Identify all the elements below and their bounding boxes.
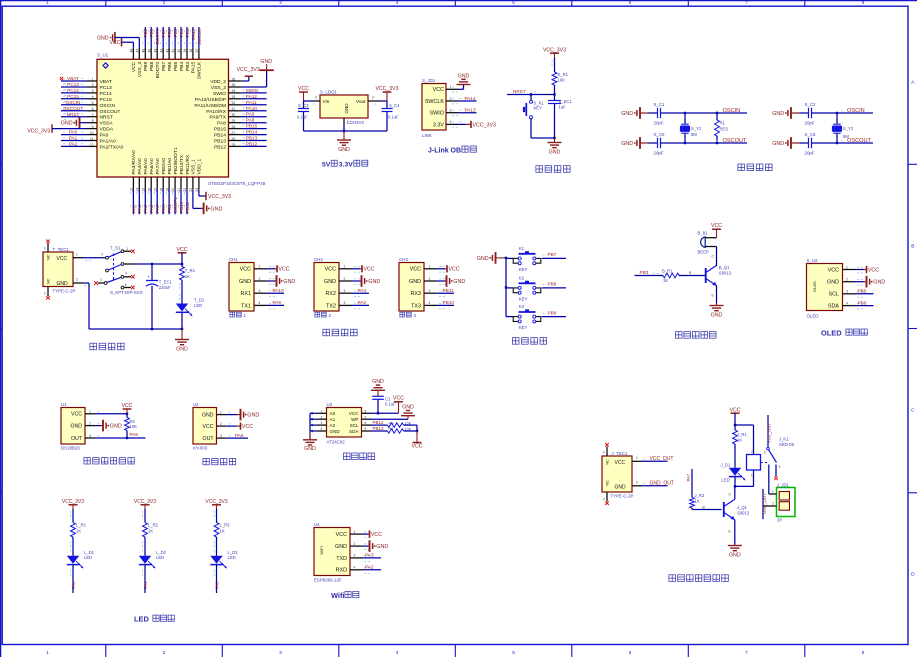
svg-text:PA4/A0: PA4/A0 bbox=[137, 158, 143, 175]
resistor L_R3 1K bbox=[214, 523, 230, 538]
svg-text:PA3: PA3 bbox=[365, 553, 374, 558]
svg-text:NC: NC bbox=[45, 254, 50, 260]
svg-text:VBAT: VBAT bbox=[67, 76, 79, 81]
svg-text:PB5: PB5 bbox=[173, 62, 179, 72]
svg-text:1K: 1K bbox=[695, 498, 700, 503]
regulator U2 LDO3V3 body bbox=[320, 95, 368, 118]
svg-text:GND: GND bbox=[458, 73, 470, 79]
svg-text:PA1/A0: PA1/A0 bbox=[100, 139, 117, 145]
net PB10 wire bbox=[437, 300, 455, 305]
resistor L_R1 1K bbox=[71, 523, 87, 538]
wire U3 WP to GND bbox=[371, 418, 408, 420]
svg-text:VCC: VCC bbox=[203, 424, 214, 430]
svg-text:S9013: S9013 bbox=[719, 270, 732, 275]
svg-text:PA8: PA8 bbox=[217, 121, 226, 127]
title storage module bbox=[343, 453, 374, 460]
svg-text:12: 12 bbox=[90, 143, 94, 147]
led L_D2 LED bbox=[139, 550, 167, 568]
key K1 KEY bbox=[506, 246, 566, 272]
svg-text:SWIO: SWIO bbox=[246, 88, 259, 93]
svg-text:PB11: PB11 bbox=[185, 201, 190, 213]
svg-text:J_JD1: J_JD1 bbox=[777, 483, 790, 488]
svg-text:26: 26 bbox=[232, 137, 236, 141]
svg-text:1K: 1K bbox=[737, 437, 742, 442]
svg-text:PC15: PC15 bbox=[100, 97, 113, 103]
svg-text:PB7: PB7 bbox=[548, 252, 557, 257]
connector JD1 designator S_JD1 bbox=[422, 78, 436, 83]
svg-text:1K: 1K bbox=[220, 528, 225, 533]
svg-text:PB12: PB12 bbox=[373, 420, 385, 425]
svg-text:J_K1: J_K1 bbox=[779, 436, 789, 441]
svg-text:SWCLK: SWCLK bbox=[197, 61, 203, 79]
mcu U1 designator S_U1 bbox=[97, 53, 109, 58]
svg-text:PA7/A0: PA7/A0 bbox=[155, 158, 161, 175]
svg-text:PB9: PB9 bbox=[143, 28, 148, 37]
svg-text:WIFI: WIFI bbox=[319, 546, 324, 554]
svg-text:3: 3 bbox=[429, 289, 431, 293]
LDO pin1 stub GND bbox=[344, 118, 349, 124]
svg-text:4: 4 bbox=[396, 0, 399, 5]
svg-text:NC: NC bbox=[604, 459, 609, 465]
title LED circuit bbox=[134, 614, 174, 623]
svg-text:30: 30 bbox=[232, 113, 236, 117]
svg-text:A2: A2 bbox=[330, 423, 336, 428]
svg-text:PA8: PA8 bbox=[246, 118, 255, 123]
svg-text:CH3: CH3 bbox=[399, 257, 408, 262]
power VCC at U3 pin8 bbox=[393, 396, 404, 414]
svg-text:32: 32 bbox=[232, 101, 236, 105]
svg-text:S_EC1: S_EC1 bbox=[559, 99, 573, 104]
svg-text:PA5/A0: PA5/A0 bbox=[143, 158, 149, 175]
svg-text:VCC_3V3: VCC_3V3 bbox=[134, 499, 156, 505]
svg-text:KEY: KEY bbox=[519, 296, 528, 301]
svg-text:PB3: PB3 bbox=[185, 28, 190, 37]
svg-text:3: 3 bbox=[315, 96, 317, 100]
resistor R1 RES bbox=[715, 112, 729, 144]
svg-text:PB4: PB4 bbox=[179, 62, 185, 72]
crystal circuit 1 wires and GND bbox=[621, 107, 747, 149]
svg-text:40: 40 bbox=[177, 49, 181, 53]
svg-text:29: 29 bbox=[232, 119, 236, 123]
svg-text:BEEP: BEEP bbox=[698, 249, 709, 254]
svg-text:2: 2 bbox=[163, 0, 166, 5]
net PB12 wire SCL bbox=[371, 420, 388, 425]
svg-text:S_Y2: S_Y2 bbox=[843, 126, 854, 131]
resistor R3 10K bbox=[388, 421, 418, 427]
svg-text:PB1: PB1 bbox=[167, 204, 172, 213]
power GND at mcu pin VSS_1 bbox=[202, 203, 223, 215]
svg-text:PB1/A0: PB1/A0 bbox=[167, 158, 173, 175]
svg-text:20pF: 20pF bbox=[805, 121, 815, 126]
power VCC_3V3 reset bbox=[543, 48, 566, 59]
power VCC_3V3 led 1 bbox=[62, 499, 84, 509]
svg-text:PB15: PB15 bbox=[214, 127, 226, 133]
svg-text:1K: 1K bbox=[76, 528, 81, 533]
display S_U2 OLED body bbox=[807, 264, 843, 311]
svg-text:GND: GND bbox=[615, 484, 627, 490]
svg-text:1: 1 bbox=[126, 247, 128, 251]
svg-text:KEY: KEY bbox=[519, 325, 528, 330]
ground GND of LDO bbox=[337, 131, 351, 153]
svg-text:1: 1 bbox=[321, 409, 323, 413]
svg-text:PB12: PB12 bbox=[214, 144, 226, 150]
svg-text:LED: LED bbox=[84, 555, 92, 560]
wire power ground rail bbox=[89, 328, 183, 330]
svg-text:4: 4 bbox=[344, 301, 346, 305]
svg-text:1: 1 bbox=[244, 313, 247, 318]
svg-text:PB5: PB5 bbox=[173, 28, 178, 37]
svg-text:SDA: SDA bbox=[349, 429, 359, 434]
resistor B_R1 1K bbox=[662, 268, 706, 282]
switch T_S1 S_KPT DIP bbox=[94, 246, 182, 295]
svg-text:PA13: PA13 bbox=[465, 108, 477, 113]
svg-text:PA7: PA7 bbox=[686, 473, 691, 481]
svg-text:PA9/TX: PA9/TX bbox=[210, 115, 227, 121]
svg-text:VCC: VCC bbox=[349, 411, 359, 416]
svg-text:DS18B20: DS18B20 bbox=[61, 445, 80, 450]
svg-text:1: 1 bbox=[429, 265, 431, 269]
svg-text:1: 1 bbox=[46, 0, 49, 5]
power GND at CH3 pin2 bbox=[437, 275, 466, 287]
svg-text:4: 4 bbox=[396, 650, 399, 655]
svg-text:5: 5 bbox=[512, 0, 515, 5]
svg-text:1: 1 bbox=[636, 456, 638, 460]
capacitor S_C1 20pF bbox=[654, 102, 666, 126]
svg-text:TYPE-C-2P: TYPE-C-2P bbox=[611, 493, 634, 498]
svg-text:S_LDO1: S_LDO1 bbox=[320, 89, 337, 94]
svg-text:PB9: PB9 bbox=[143, 62, 149, 72]
svg-text:1: 1 bbox=[846, 265, 848, 269]
svg-text:5: 5 bbox=[92, 101, 94, 105]
svg-text:6: 6 bbox=[629, 650, 632, 655]
svg-text:6: 6 bbox=[629, 0, 632, 5]
svg-text:2: 2 bbox=[372, 96, 374, 100]
crystal S_Y1 8M bbox=[680, 112, 702, 144]
svg-text:20pF: 20pF bbox=[654, 151, 664, 156]
svg-text:1: 1 bbox=[344, 265, 346, 269]
svg-text:4: 4 bbox=[259, 301, 261, 305]
mcu U1 STM32F103C8T6 body bbox=[97, 59, 229, 177]
svg-text:R4: R4 bbox=[389, 427, 394, 431]
module U4 ESP8266 body bbox=[314, 528, 350, 576]
display S_U2 pin stubs bbox=[843, 265, 864, 309]
mcu U1 value STM32F103C8T6_LQFP48 bbox=[208, 181, 266, 186]
svg-text:GND: GND bbox=[621, 111, 633, 117]
svg-text:L_R1: L_R1 bbox=[76, 523, 87, 528]
capacitor T_EC1 220uF bbox=[146, 263, 173, 329]
svg-text:OSCIN: OSCIN bbox=[66, 100, 81, 105]
power VCC_3V3 led 2 bbox=[134, 499, 156, 509]
svg-text:9: 9 bbox=[92, 125, 94, 129]
svg-text:11: 11 bbox=[90, 137, 94, 141]
svg-text:4: 4 bbox=[450, 120, 452, 124]
svg-text:3: 3 bbox=[414, 313, 417, 318]
connector J_TEC1 TYPE-C body bbox=[602, 456, 632, 492]
svg-text:VCC: VCC bbox=[71, 412, 82, 418]
net NRST wire bbox=[507, 89, 556, 96]
svg-text:VCC_3V3: VCC_3V3 bbox=[208, 194, 231, 200]
svg-text:1: 1 bbox=[259, 265, 261, 269]
resistor S_R1 10K bbox=[552, 72, 569, 85]
wire resistor to led L_D2 bbox=[143, 537, 146, 556]
svg-text:S_C4: S_C4 bbox=[389, 103, 400, 108]
svg-text:GND: GND bbox=[247, 413, 259, 419]
svg-text:1: 1 bbox=[450, 85, 452, 89]
svg-text:GND: GND bbox=[283, 279, 295, 285]
svg-text:3: 3 bbox=[279, 650, 282, 655]
svg-text:K1: K1 bbox=[519, 246, 525, 251]
svg-text:PA4: PA4 bbox=[71, 581, 76, 589]
svg-text:220uF: 220uF bbox=[159, 285, 171, 290]
svg-text:6: 6 bbox=[125, 283, 127, 287]
svg-text:A0: A0 bbox=[330, 411, 336, 416]
net PA0 wire led 3 bbox=[214, 565, 219, 593]
svg-text:GND: GND bbox=[729, 553, 741, 559]
svg-text:CH1: CH1 bbox=[229, 257, 238, 262]
title 5V to 3.3V circuit bbox=[322, 160, 368, 168]
sensor U1 designator bbox=[61, 402, 67, 407]
svg-text:LED: LED bbox=[194, 303, 202, 308]
svg-text:J_R2: J_R2 bbox=[695, 493, 705, 498]
power VCC_3V3 at mcu pin VDD_1 bbox=[206, 192, 231, 200]
svg-text:PB13: PB13 bbox=[373, 426, 385, 431]
svg-text:LED: LED bbox=[134, 614, 149, 623]
svg-text:2: 2 bbox=[92, 83, 94, 87]
net label PB8 bbox=[543, 282, 557, 287]
svg-text:VCC_OUT: VCC_OUT bbox=[650, 456, 674, 462]
connector CH2 designator bbox=[314, 257, 323, 262]
memory U3 pin stubs bbox=[317, 409, 371, 431]
title serial circuit bbox=[323, 329, 357, 336]
LDO pin3 stub bbox=[312, 96, 320, 104]
svg-text:2: 2 bbox=[101, 252, 103, 256]
svg-text:GND: GND bbox=[260, 59, 272, 65]
svg-text:BOOT0: BOOT0 bbox=[155, 62, 161, 79]
svg-text:RXD: RXD bbox=[336, 568, 347, 574]
svg-text:PB11: PB11 bbox=[443, 288, 455, 293]
title J-Link OB interface bbox=[428, 146, 476, 154]
power VCC temperature bbox=[122, 403, 133, 414]
net label OSCOUT 1 bbox=[716, 138, 747, 144]
svg-text:25: 25 bbox=[232, 143, 236, 147]
sensor U1 pin stubs bbox=[85, 410, 99, 438]
net label PA13 wire bbox=[458, 108, 477, 113]
svg-text:43: 43 bbox=[159, 49, 163, 53]
svg-text:GND: GND bbox=[621, 141, 633, 147]
svg-text:PB8: PB8 bbox=[149, 28, 154, 37]
svg-text:OSCIN: OSCIN bbox=[100, 103, 116, 109]
svg-text:NRST: NRST bbox=[513, 89, 526, 94]
svg-text:U2: U2 bbox=[193, 402, 199, 407]
power VCC at OLED pin1 bbox=[855, 266, 879, 274]
svg-text:2: 2 bbox=[429, 277, 431, 281]
svg-text:PA14: PA14 bbox=[465, 96, 477, 101]
svg-text:SCL: SCL bbox=[829, 292, 840, 298]
power GND at U1 pin2 bbox=[95, 420, 122, 432]
svg-text:Vin: Vin bbox=[323, 99, 330, 105]
svg-text:PB8: PB8 bbox=[149, 62, 155, 72]
svg-text:VDD_2: VDD_2 bbox=[210, 79, 226, 85]
wire LDO ground rail bbox=[304, 124, 388, 132]
svg-text:PA0: PA0 bbox=[100, 133, 109, 139]
svg-text:OUT: OUT bbox=[71, 436, 83, 442]
sensor U1 value DS18B20 bbox=[61, 445, 80, 450]
svg-text:SRD-05: SRD-05 bbox=[779, 442, 795, 447]
resistor J_R2 1K bbox=[690, 493, 722, 510]
svg-text:45: 45 bbox=[147, 49, 151, 53]
sensor U2 KY-003 body bbox=[193, 408, 217, 445]
svg-text:VCC: VCC bbox=[393, 396, 404, 402]
svg-text:OLED: OLED bbox=[807, 314, 819, 319]
net PA4 wire led 1 bbox=[71, 565, 76, 593]
svg-text:OSCOUT: OSCOUT bbox=[723, 138, 748, 144]
svg-text:8: 8 bbox=[365, 409, 367, 413]
net PA9 wire bbox=[267, 300, 285, 305]
net label OSCOUT 2 bbox=[841, 138, 872, 144]
svg-text:7: 7 bbox=[365, 415, 367, 419]
svg-text:VCC: VCC bbox=[325, 267, 336, 273]
svg-text:3: 3 bbox=[764, 451, 766, 455]
svg-text:1K: 1K bbox=[663, 278, 668, 283]
mcu U1 top pins 48-37 stubs and names bbox=[130, 48, 203, 79]
module U4 pin stubs bbox=[350, 530, 370, 573]
svg-text:PB13: PB13 bbox=[246, 136, 258, 141]
relay coil J_K1 bbox=[735, 425, 761, 486]
svg-text:GND: GND bbox=[549, 150, 561, 156]
svg-text:CH2: CH2 bbox=[314, 257, 323, 262]
svg-text:SWIO: SWIO bbox=[430, 111, 444, 117]
svg-text:LED: LED bbox=[156, 555, 164, 560]
svg-text:PB10/TX: PB10/TX bbox=[179, 154, 185, 174]
svg-text:WP: WP bbox=[351, 417, 358, 422]
svg-text:VCC_OUT: VCC_OUT bbox=[766, 423, 771, 443]
svg-text:8: 8 bbox=[92, 119, 94, 123]
svg-text:GND: GND bbox=[368, 279, 380, 285]
net PA3 wire bbox=[352, 288, 370, 293]
power GND at mcu pin VSS_2 bbox=[242, 59, 274, 87]
svg-text:PA12: PA12 bbox=[246, 94, 258, 99]
connector CH3 pin stubs bbox=[424, 265, 445, 309]
svg-text:BOOT0: BOOT0 bbox=[155, 28, 160, 44]
resistor J_R1 1K bbox=[733, 424, 748, 468]
svg-text:T_TEC1: T_TEC1 bbox=[53, 247, 70, 252]
svg-text:2: 2 bbox=[772, 501, 774, 505]
svg-text:PA9: PA9 bbox=[246, 112, 255, 117]
ground GND above C1 bbox=[371, 379, 385, 396]
svg-text:2: 2 bbox=[321, 415, 323, 419]
svg-text:KY-003: KY-003 bbox=[193, 445, 208, 450]
net PA3 wire wifi bbox=[362, 553, 381, 558]
svg-text:OLED: OLED bbox=[812, 281, 817, 292]
svg-text:K3: K3 bbox=[519, 304, 525, 309]
svg-text:S_C5: S_C5 bbox=[654, 132, 666, 137]
svg-text:C: C bbox=[911, 408, 915, 414]
svg-text:PC14: PC14 bbox=[100, 91, 113, 97]
svg-text:B: B bbox=[911, 244, 914, 250]
power VCC_3V3 led 3 bbox=[205, 499, 227, 509]
svg-text:6: 6 bbox=[92, 107, 94, 111]
svg-text:35: 35 bbox=[232, 83, 236, 87]
memory U3 value AT24C02 bbox=[327, 439, 346, 444]
svg-text:PA3/RX/A0: PA3/RX/A0 bbox=[131, 150, 137, 175]
svg-text:5: 5 bbox=[365, 427, 367, 431]
svg-text:3: 3 bbox=[450, 109, 452, 113]
connector T_TEC1 TYPE-C body bbox=[43, 252, 73, 287]
svg-text:NRST: NRST bbox=[67, 112, 80, 117]
mcu U1 bottom pins 13-24 stubs and names bbox=[130, 147, 203, 192]
capacitor S_EC1 1uF bbox=[548, 95, 572, 139]
svg-text:VCC: VCC bbox=[363, 267, 374, 273]
svg-text:7: 7 bbox=[745, 0, 748, 5]
svg-text:R1: R1 bbox=[720, 121, 726, 126]
crystal S_Y2 8M bbox=[832, 112, 854, 144]
svg-text:PA6/A0: PA6/A0 bbox=[149, 158, 155, 175]
svg-text:1: 1 bbox=[46, 650, 49, 655]
title relay control circuit bbox=[669, 575, 728, 582]
J_TEC1 shell pins with no-ERC bbox=[603, 443, 609, 505]
power VCC at CH1 pin1 bbox=[267, 265, 290, 273]
net GND_OUT wire 2 bbox=[762, 489, 767, 519]
svg-text:46: 46 bbox=[142, 49, 146, 53]
net PB13 wire SDA bbox=[371, 426, 388, 431]
connector CH3 designator bbox=[399, 257, 408, 262]
display S_U2 value OLED bbox=[807, 314, 819, 319]
net PB5 wire OLED SCL bbox=[855, 289, 874, 294]
svg-text:OLED: OLED bbox=[821, 328, 842, 337]
svg-text:SWCLK: SWCLK bbox=[425, 99, 445, 105]
svg-text:33: 33 bbox=[232, 95, 236, 99]
svg-text:OSCOUT: OSCOUT bbox=[100, 109, 121, 115]
svg-text:3: 3 bbox=[279, 0, 282, 5]
svg-text:B_Q1: B_Q1 bbox=[719, 265, 730, 270]
svg-text:PA11: PA11 bbox=[246, 100, 257, 105]
ground GND buzzer bbox=[710, 304, 724, 319]
connector CH2 value bbox=[315, 312, 332, 318]
ground GND reset bbox=[548, 137, 562, 156]
svg-text:PB4: PB4 bbox=[179, 28, 184, 37]
connector JD1 J-Link body bbox=[422, 84, 446, 131]
power VCC buzzer bbox=[711, 223, 722, 238]
svg-text:T_R1: T_R1 bbox=[185, 268, 196, 273]
connector JD1 pin stubs 1-4 bbox=[446, 85, 458, 127]
connector JD1 value LINK bbox=[422, 133, 432, 138]
regulator U2 designator S_LDO1 bbox=[320, 89, 337, 94]
capacitor C4 0.1uF bbox=[382, 101, 401, 131]
svg-text:20pF: 20pF bbox=[805, 151, 815, 156]
wire resistor to led L_D3 bbox=[214, 537, 217, 556]
ground GND power circuit bbox=[175, 329, 189, 353]
svg-text:GND: GND bbox=[239, 279, 251, 285]
svg-text:PA11/USB/DM: PA11/USB/DM bbox=[194, 103, 226, 109]
power VCC at U4 pin1 bbox=[362, 531, 382, 539]
svg-text:VCC: VCC bbox=[433, 87, 444, 93]
svg-text:U1: U1 bbox=[61, 402, 67, 407]
svg-text:PA0: PA0 bbox=[69, 130, 78, 135]
svg-text:GND: GND bbox=[324, 279, 336, 285]
resistor R4 10K bbox=[388, 427, 418, 433]
svg-text:VCC: VCC bbox=[131, 61, 137, 72]
mcu bottom net wires PA3..PB11 bbox=[131, 189, 190, 214]
net PA10 wire bbox=[267, 288, 285, 293]
svg-text:3: 3 bbox=[321, 421, 323, 425]
svg-text:GND: GND bbox=[772, 111, 784, 117]
T_TEC1 pin1 wire to switch bbox=[73, 252, 106, 260]
svg-text:PC15: PC15 bbox=[67, 94, 79, 99]
svg-text:GND: GND bbox=[711, 313, 723, 319]
wire VSS_1 to GND bbox=[193, 189, 202, 208]
svg-text:VBAT: VBAT bbox=[100, 79, 112, 85]
svg-text:L_R2: L_R2 bbox=[148, 523, 159, 528]
